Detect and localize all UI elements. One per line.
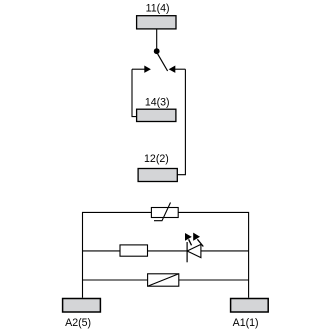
wire left bus A2 side	[83, 212, 152, 297]
svg-text:11(4): 11(4)	[146, 2, 170, 14]
wire coil to right bus	[179, 279, 249, 281]
terminal 11(4)	[137, 16, 176, 29]
wire resistor to LED	[148, 250, 188, 252]
varistor body	[151, 208, 178, 218]
LED cathode bar	[186, 242, 188, 262]
terminal 12(2)	[138, 169, 177, 182]
wire middle branch left	[83, 250, 121, 252]
svg-text:12(2): 12(2)	[144, 153, 169, 165]
wire arrow to terminal 12	[177, 69, 185, 175]
terminal 14(3)	[137, 109, 176, 121]
LED emission arrow 2	[193, 233, 203, 247]
common contact node	[154, 48, 160, 54]
terminal A1(1)	[231, 299, 269, 313]
LED emission arrow 1	[185, 233, 192, 245]
wire LED to right bus	[201, 250, 249, 252]
svg-text:14(3): 14(3)	[145, 97, 170, 109]
terminal A2(5)	[63, 299, 101, 313]
varistor diagonal stroke	[154, 203, 171, 221]
wire bottom branch left	[83, 279, 148, 281]
wire arrow to terminal 14	[132, 69, 137, 116]
svg-text:A2(5): A2(5)	[65, 317, 91, 329]
relay coil body	[148, 274, 179, 286]
resistor	[120, 245, 148, 256]
svg-text:A1(1): A1(1)	[233, 317, 259, 329]
arrow toward 14 contact	[132, 66, 151, 73]
LED triangle	[187, 244, 201, 257]
arrow toward 12 contact	[169, 66, 186, 73]
relay coil diagonal	[148, 274, 179, 286]
switch lever	[158, 54, 168, 71]
wire 11 to common node	[156, 29, 158, 49]
wire right bus A1 side	[178, 212, 248, 297]
